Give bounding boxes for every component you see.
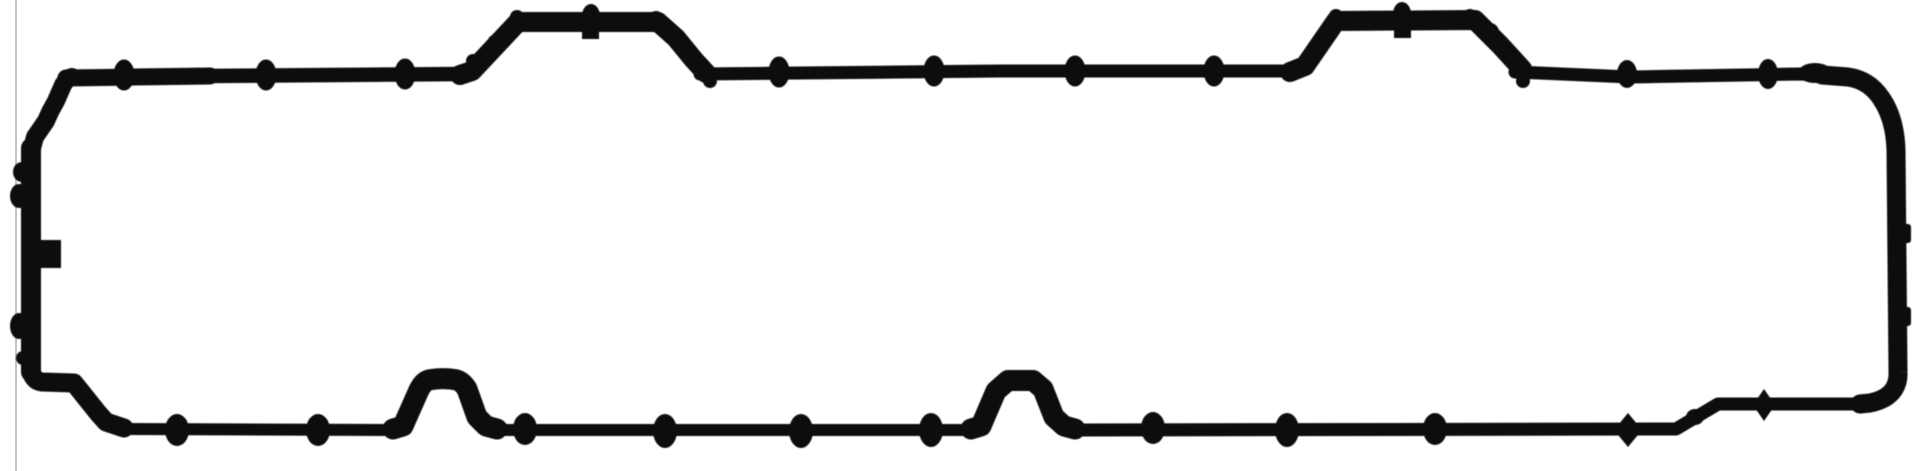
gasket top rail left b	[205, 74, 466, 76]
bottom upper-rail diamond boss 2	[1753, 389, 1775, 421]
left inward tab	[31, 240, 61, 268]
bottom-right step knuckle	[1686, 409, 1704, 425]
bottom rail boss 7	[1141, 412, 1165, 444]
bottom rail boss 8	[1275, 413, 1299, 447]
gasket top-right corner and right rail	[1822, 75, 1898, 404]
bump1 plateau shoulder bumps	[510, 10, 524, 24]
bump1 right slope bulge b	[676, 40, 694, 58]
bottom rail diamond boss 1	[1614, 413, 1642, 447]
gasket top rail right	[1515, 72, 1838, 77]
left rail boss 1	[13, 162, 31, 182]
bottom rail boss 2	[306, 414, 330, 446]
gasket top bump 1	[460, 22, 706, 75]
gasket top bump 2	[1290, 20, 1522, 72]
bottom rail boss 5	[789, 414, 813, 448]
top rail boss 6	[1065, 56, 1086, 87]
bump2 right-base lower nub	[1516, 74, 1530, 88]
bump2 plateau top nub	[1393, 2, 1411, 26]
left rail nub 4	[16, 351, 30, 365]
top-right boss b	[1758, 59, 1778, 89]
top rail boss 7	[1204, 56, 1225, 87]
top rail boss 4	[769, 57, 790, 88]
gasket bottom-left corner	[31, 368, 124, 428]
right rail nub 1	[1898, 224, 1911, 243]
bump1 plateau lower tab	[582, 28, 599, 39]
top rail boss 1	[114, 60, 135, 91]
bump2 left slope nub	[1313, 37, 1327, 51]
bottom rail boss 9	[1423, 413, 1447, 445]
bottom rail boss 6	[919, 413, 943, 447]
left rail boss 2	[10, 184, 28, 208]
bump1 plateau top nub	[582, 4, 600, 28]
right rail nub 2	[1898, 307, 1911, 326]
bump2 right slope bulge	[1481, 23, 1499, 41]
top rail boss 2	[256, 60, 277, 91]
gasket bottom arch 1	[393, 379, 497, 429]
gasket bottom arch 2	[971, 381, 1075, 430]
bottom rail boss 4	[653, 414, 677, 448]
left diagonal outer nub	[33, 122, 47, 138]
bump1 right-base lower nub	[703, 74, 717, 88]
left rail boss 3	[10, 313, 28, 339]
bottom rail boss 3	[513, 413, 537, 445]
gasket top rail left	[66, 76, 210, 78]
gasket left rail	[21, 148, 41, 372]
top rail boss 3	[395, 59, 416, 90]
gasket top rail middle	[700, 71, 1296, 74]
bump1 left slope nub	[466, 54, 480, 68]
gasket bottom-right upper rail and step	[1080, 404, 1866, 430]
gasket bottom rail left	[122, 429, 390, 430]
gasket bottom rail middle	[497, 424, 968, 436]
top rail boss 5	[924, 56, 945, 87]
faint photo edge line left	[15, 0, 17, 471]
gasket left upper diagonal	[31, 77, 72, 152]
bottom rail boss 1	[165, 414, 189, 446]
bump2 right slope bulge b	[1498, 44, 1516, 62]
bump2 plateau shoulder bumps	[1329, 9, 1343, 23]
bump2 plateau lower tab	[1394, 26, 1411, 38]
bump1 right slope bulge	[659, 22, 677, 40]
top-right boss	[1617, 60, 1637, 88]
top-right raised pad	[1798, 63, 1832, 83]
bump1 left slope nub b	[488, 35, 500, 47]
